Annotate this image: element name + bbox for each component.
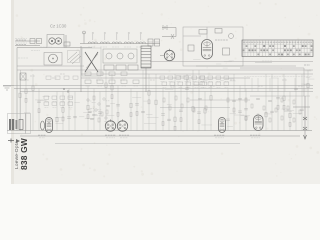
svg-text:Cz 1C30: Cz 1C30 <box>50 24 67 29</box>
svg-text:838 GW: 838 GW <box>19 138 29 170</box>
